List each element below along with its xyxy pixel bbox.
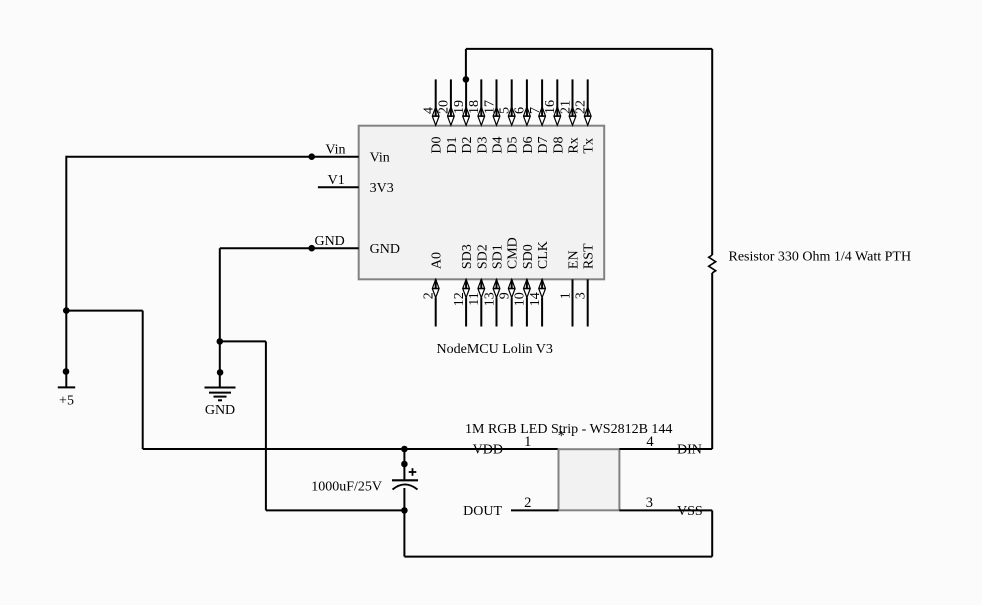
pin Vin of U1 — [308, 151, 389, 166]
wire cap top stub — [401, 449, 408, 467]
svg-text:A0: A0 — [430, 252, 445, 269]
svg-text:Resistor 330 Ohm 1/4 Watt PTH: Resistor 330 Ohm 1/4 Watt PTH — [729, 250, 912, 265]
svg-text:5: 5 — [498, 107, 513, 114]
pin A0 (pin 2) of U1 — [422, 252, 445, 327]
wire +5 vertical — [65, 156, 67, 372]
wire GND vertical — [219, 248, 221, 341]
resistor R1 330 Ohm — [709, 255, 716, 273]
svg-text:4: 4 — [646, 434, 654, 450]
wire resistor bottom — [711, 273, 713, 449]
svg-text:NodeMCU Lolin V3: NodeMCU Lolin V3 — [437, 342, 553, 357]
svg-text:VDD: VDD — [473, 443, 503, 458]
wire resistor top — [711, 49, 713, 255]
pin GND of U1 — [308, 242, 400, 257]
pin SD2 (pin 11) of U1 — [467, 244, 490, 326]
pin D5 (pin 5) of U1 — [498, 79, 521, 153]
pin DOUT (2) of LED1 — [463, 495, 558, 519]
svg-text:3: 3 — [646, 495, 653, 511]
svg-text:D1: D1 — [445, 136, 460, 153]
pin VSS (3) of LED1 — [619, 495, 712, 519]
junction GND corner — [217, 338, 224, 345]
pin Tx (pin 22) of U1 — [574, 79, 597, 153]
svg-text:SD0: SD0 — [521, 244, 536, 269]
svg-text:17: 17 — [482, 100, 497, 114]
svg-text:D8: D8 — [551, 136, 566, 153]
svg-text:CMD: CMD — [506, 237, 521, 269]
wire VSS down — [711, 510, 713, 556]
junction D2 pin top — [463, 76, 470, 83]
pin D2 (pin 19) of U1 — [452, 79, 475, 153]
svg-text:SD1: SD1 — [491, 244, 506, 269]
svg-text:10: 10 — [513, 292, 528, 306]
svg-text:2: 2 — [524, 495, 531, 511]
pin D3 (pin 18) of U1 — [467, 79, 490, 153]
svg-text:20: 20 — [437, 100, 452, 114]
pin CMD (pin 9) of U1 — [498, 237, 521, 326]
label NodeMCU Lolin V3 — [437, 342, 553, 357]
svg-text:D6: D6 — [521, 136, 536, 153]
svg-text:1M RGB LED Strip - WS2812B 144: 1M RGB LED Strip - WS2812B 144 — [465, 422, 672, 437]
value label Resistor 330 Ohm 1/4 Watt PTH — [729, 250, 912, 265]
svg-text:9: 9 — [498, 292, 513, 299]
svg-text:14: 14 — [528, 292, 543, 306]
net label GND — [314, 234, 344, 249]
part LED1 WS2812B body — [559, 449, 620, 510]
svg-text:13: 13 — [482, 292, 497, 306]
label 1M RGB LED Strip - WS2812B 144 — [465, 422, 672, 444]
wire GND pin to corner — [220, 247, 312, 249]
svg-text:DIN: DIN — [677, 443, 702, 458]
svg-text:*: * — [558, 429, 565, 444]
power +5 symbol — [58, 368, 75, 409]
svg-text:18: 18 — [467, 100, 482, 114]
junction +5 branch — [63, 307, 70, 314]
svg-text:SD2: SD2 — [475, 244, 490, 269]
capacitor C1 1000uF/25V — [392, 464, 418, 510]
ground symbol GND — [205, 341, 236, 418]
wire bottom horizontal — [404, 556, 712, 558]
svg-text:22: 22 — [574, 100, 589, 114]
pin Rx (pin 21) of U1 — [558, 79, 581, 153]
pin SD3 (pin 12) of U1 — [452, 244, 475, 326]
svg-text:D0: D0 — [430, 136, 445, 153]
wire +5 branch vertical — [142, 311, 144, 449]
op IC body U1 NodeMCU — [359, 126, 605, 280]
svg-text:Rx: Rx — [567, 137, 582, 153]
svg-text:Vin: Vin — [325, 142, 345, 157]
svg-text:1000uF/25V: 1000uF/25V — [311, 479, 382, 494]
pin D6 (pin 6) of U1 — [513, 79, 536, 153]
svg-text:Tx: Tx — [582, 138, 597, 154]
svg-text:RST: RST — [582, 243, 597, 269]
svg-text:3V3: 3V3 — [370, 181, 394, 196]
junction cap bottom — [401, 507, 408, 514]
pin DIN (4) of LED1 — [619, 434, 712, 458]
net label Vin — [325, 142, 345, 157]
svg-text:2: 2 — [422, 292, 437, 299]
value label 1000uF/25V — [311, 479, 382, 494]
svg-text:1: 1 — [524, 434, 531, 450]
svg-text:7: 7 — [528, 107, 543, 114]
pin D7 (pin 7) of U1 — [528, 79, 551, 153]
pin SD1 (pin 13) of U1 — [482, 244, 505, 326]
svg-text:1: 1 — [558, 292, 573, 299]
svg-text:V1: V1 — [328, 173, 345, 188]
svg-text:GND: GND — [205, 403, 235, 418]
wire D2 up — [465, 49, 467, 80]
pin RST (pin 3) of U1 — [574, 243, 597, 327]
junction cap top — [401, 446, 408, 453]
svg-text:11: 11 — [467, 292, 482, 305]
svg-text:12: 12 — [452, 292, 467, 306]
wire GND to right — [220, 340, 266, 342]
svg-text:EN: EN — [567, 250, 582, 269]
svg-text:DOUT: DOUT — [463, 504, 502, 519]
pin D0 (pin 4) of U1 — [422, 79, 445, 153]
svg-text:VSS: VSS — [677, 504, 703, 519]
svg-text:+5: +5 — [59, 394, 74, 409]
net label V1 — [328, 173, 345, 188]
svg-text:CLK: CLK — [536, 241, 551, 269]
svg-text:16: 16 — [543, 100, 558, 114]
svg-text:D2: D2 — [460, 136, 475, 153]
pin CLK (pin 14) of U1 — [528, 241, 551, 326]
wire +5 branch horizontal — [66, 310, 142, 312]
wire VDD horizontal — [143, 448, 559, 450]
svg-text:D7: D7 — [536, 136, 551, 153]
svg-text:19: 19 — [452, 100, 467, 114]
svg-text:GND: GND — [370, 242, 400, 257]
wire Vin net — [66, 156, 311, 158]
svg-text:D3: D3 — [475, 136, 490, 153]
svg-text:3: 3 — [574, 292, 589, 299]
svg-text:21: 21 — [558, 100, 573, 114]
wire GND down right side — [265, 341, 267, 510]
wire GND to cap bottom — [266, 509, 405, 511]
pin D4 (pin 17) of U1 — [482, 79, 505, 153]
wire cap bottom down — [403, 510, 405, 556]
pin D8 (pin 16) of U1 — [543, 79, 566, 153]
svg-text:D5: D5 — [506, 136, 521, 153]
svg-text:Vin: Vin — [370, 151, 390, 166]
svg-text:4: 4 — [422, 107, 437, 114]
pin VDD (1) of LED1 — [473, 434, 532, 458]
svg-text:D4: D4 — [491, 136, 506, 153]
svg-text:GND: GND — [314, 234, 344, 249]
svg-text:SD3: SD3 — [460, 244, 475, 269]
pin EN (pin 1) of U1 — [558, 250, 581, 326]
pin 3V3 of U1 — [318, 181, 394, 196]
pin SD0 (pin 10) of U1 — [513, 244, 536, 326]
svg-text:6: 6 — [513, 107, 528, 114]
wire top horizontal — [466, 48, 712, 50]
pin D1 (pin 20) of U1 — [437, 79, 460, 153]
